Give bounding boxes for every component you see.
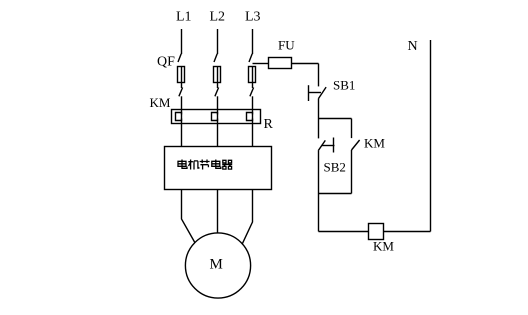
wire L2 drop (217, 29, 219, 54)
KM aux contact blade (352, 140, 360, 150)
svg-text:QF: QF (157, 55, 175, 70)
svg-text:R: R (264, 117, 274, 132)
pushbutton SB1 blade (319, 87, 327, 98)
svg-text:L3: L3 (245, 10, 261, 25)
wire split to KM contact (351, 119, 353, 139)
breaker QF pole 2 body wire (217, 67, 219, 89)
wire SB1 to split (318, 99, 320, 119)
neutral line N (430, 40, 432, 232)
breaker QF pole 1 body (178, 67, 185, 83)
wire fuse to corner (292, 63, 319, 65)
wire SB2 down (318, 151, 320, 194)
pole 1 bracket (176, 113, 182, 121)
pushbutton SB2 cap (333, 138, 335, 153)
svg-text:N: N (408, 39, 418, 54)
breaker QF pole 1 blade (178, 54, 181, 62)
motor M circle (185, 233, 250, 298)
pole 2 bracket (212, 113, 218, 121)
wire split to SB2 (318, 119, 320, 139)
split node wire (319, 118, 352, 120)
glyph jie (200, 160, 210, 170)
rejoin wire (319, 193, 352, 195)
breaker QF pole 1 body wire (181, 67, 183, 89)
svg-text:SB2: SB2 (324, 160, 346, 175)
svg-text:KM: KM (373, 239, 394, 254)
contactor KM pole 2 lower wire (217, 96, 219, 146)
bottom wire to coil (319, 231, 369, 233)
glyph dian 2 (212, 160, 221, 169)
svg-text:L2: L2 (210, 10, 226, 25)
pushbutton SB2 blade (318, 140, 325, 150)
breaker QF pole 3 body wire (252, 67, 254, 89)
motor saver box (165, 147, 272, 190)
wire corner down to SB1 (318, 64, 320, 87)
wire coil to N (384, 231, 431, 233)
contactor KM pole 3 blade (250, 88, 254, 97)
wire L3 drop (252, 29, 254, 54)
svg-text:SB1: SB1 (333, 78, 355, 93)
contactor main contact box R (172, 110, 261, 124)
breaker QF pole 3 blade (249, 54, 252, 62)
breaker QF pole 2 blade (214, 54, 217, 62)
contactor KM pole 3 lower wire (252, 96, 254, 146)
motor lead right (242, 190, 252, 244)
contactor KM pole 2 blade (215, 88, 219, 97)
svg-text:L1: L1 (176, 10, 192, 25)
wire KM contact down (351, 150, 353, 194)
svg-text:KM: KM (364, 136, 385, 151)
svg-text:M: M (210, 257, 223, 273)
motor lead left (182, 190, 195, 243)
pushbutton SB1 cap (308, 85, 310, 101)
contactor coil KM (369, 224, 384, 240)
glyph ji (188, 160, 199, 170)
svg-text:FU: FU (278, 38, 295, 53)
glyph qi (222, 160, 232, 169)
breaker QF pole 2 body (214, 67, 221, 83)
pushbutton SB2 rod (322, 145, 335, 147)
contactor KM pole 1 lower wire (181, 96, 183, 146)
wire rejoin to bottom (318, 194, 320, 232)
contactor KM pole 1 blade (179, 88, 183, 97)
motor saver text 电机节电器 (178, 160, 232, 170)
pole 3 bracket (247, 113, 253, 121)
wire L1 drop (181, 29, 183, 54)
pushbutton SB1 rod (309, 92, 322, 94)
wire L3 to fuse (253, 63, 269, 65)
svg-text:KM: KM (150, 95, 171, 110)
breaker QF pole 3 body (249, 67, 256, 83)
fuse FU body (269, 58, 292, 69)
glyph dian 1 (178, 160, 187, 169)
motor lead middle (217, 190, 219, 234)
